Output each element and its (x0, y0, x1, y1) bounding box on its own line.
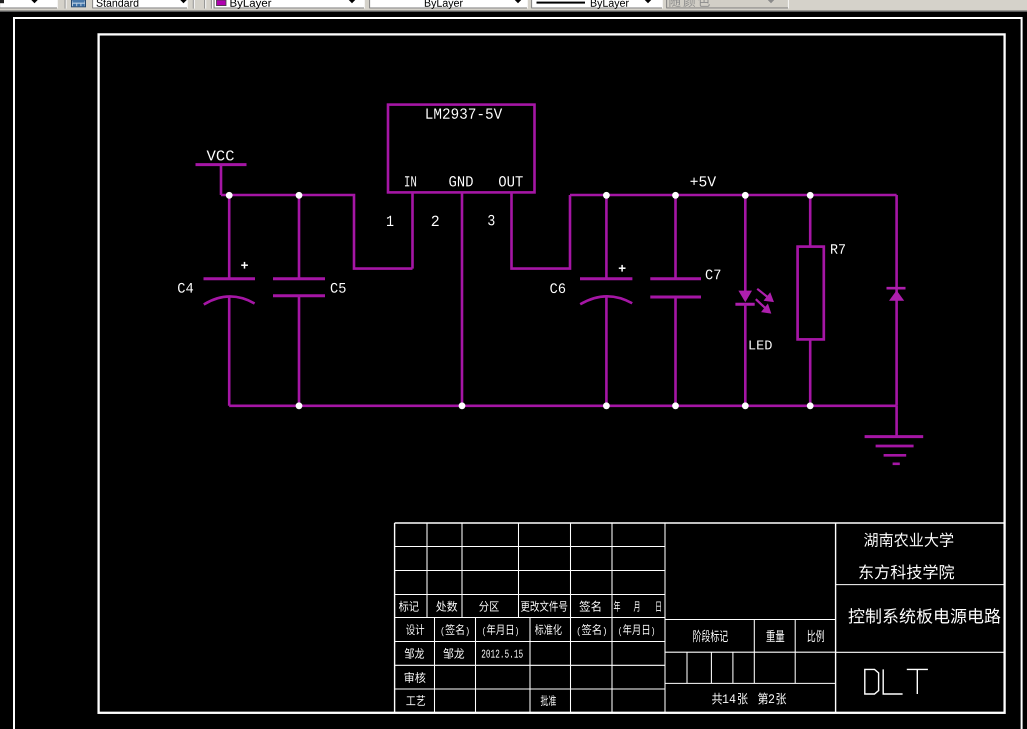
junction LED bottom (742, 402, 749, 409)
junction C4 top (226, 192, 233, 199)
wire +5V rail to diode to bottom rail (895, 195, 898, 406)
capacitor C5 (273, 195, 325, 406)
wire GND pin to ground rail (461, 193, 464, 406)
pin number 3 (488, 215, 494, 226)
label C6 (550, 283, 565, 293)
resistor R7 (798, 195, 824, 406)
junction C6 bottom (603, 402, 610, 409)
wire ground rail (229, 404, 896, 407)
junction R7 top (807, 192, 814, 199)
pin number 2 (432, 216, 439, 226)
pin label IN (405, 176, 416, 186)
capacitor C7 (650, 195, 701, 406)
pin number 1 (387, 216, 393, 226)
junction C6 top (603, 192, 610, 199)
junction C7 top (672, 192, 679, 199)
label R7 (831, 244, 845, 254)
pin label GND (449, 176, 473, 187)
junction R7 bottom (807, 402, 814, 409)
junction LED top (742, 192, 749, 199)
net label VCC (207, 150, 234, 160)
junction C5 bottom (296, 402, 303, 409)
label C7 (706, 270, 721, 280)
label C5 (331, 283, 346, 293)
diode D2 (887, 288, 906, 301)
junction C5 top (296, 192, 303, 199)
label LED (750, 341, 772, 350)
junction C7 bottom (672, 402, 679, 409)
label C4 (178, 283, 193, 293)
wire +5V rail (570, 194, 897, 197)
LED D1 (735, 195, 772, 406)
label LM2937-5V (426, 108, 502, 119)
junction GND pin bottom (459, 402, 466, 409)
op-amp U1 LM2937-5V regulator box (388, 105, 535, 193)
pin label OUT (499, 176, 523, 187)
capacitor C4 (204, 195, 256, 406)
capacitor C6 (580, 195, 632, 406)
wire OUT pin zig to +5V rail (512, 193, 571, 269)
net label +5V (690, 176, 716, 186)
power symbol VCC (196, 165, 247, 195)
ground (865, 406, 924, 464)
wire VCC rail to IN zig (221, 195, 413, 269)
wire IN pin lead (411, 193, 414, 269)
